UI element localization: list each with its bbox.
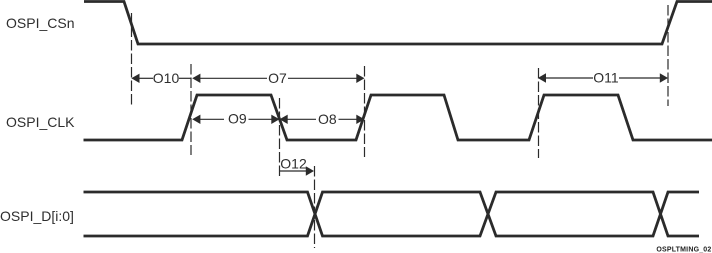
- dashed line at CSn fall: [131, 13, 133, 107]
- wire OSPI_D bus rail A: [84, 192, 700, 236]
- svg-text:OSPLTMING_02: OSPLTMING_02: [656, 247, 711, 253]
- svg-text:O12: O12: [280, 156, 307, 172]
- svg-text:O8: O8: [318, 111, 337, 127]
- dashed line at data transition: [314, 166, 316, 248]
- dimension O7 arrow: [192, 74, 364, 83]
- dimension O8 arrow: [280, 115, 365, 124]
- dashed line at CLK rise 1: [190, 64, 192, 155]
- wire OSPI_D bus rail B: [84, 192, 700, 236]
- dashed line at CLK rise 2: [364, 66, 366, 157]
- svg-text:O11: O11: [593, 70, 619, 86]
- svg-text:OSPI_CLK: OSPI_CLK: [6, 114, 75, 130]
- dimension O11 arrow: [538, 73, 668, 82]
- dimension O12 arrow: [280, 166, 315, 175]
- dashed line at CSn rise: [667, 5, 669, 106]
- svg-text:O9: O9: [228, 111, 247, 127]
- svg-text:O10: O10: [153, 70, 180, 86]
- wire OSPI_CLK trace: [84, 95, 712, 140]
- dimension O9 arrow: [192, 115, 279, 124]
- wire OSPI_CSn trace: [84, 2, 712, 45]
- svg-text:OSPI_D[i:0]: OSPI_D[i:0]: [0, 208, 74, 224]
- dashed line at CLK rise 3: [538, 68, 540, 158]
- dimension O10 arrow: [131, 74, 191, 83]
- svg-text:OSPI_CSn: OSPI_CSn: [6, 15, 74, 31]
- svg-text:O7: O7: [268, 70, 287, 86]
- dashed line at CLK fall 1: [279, 98, 281, 179]
